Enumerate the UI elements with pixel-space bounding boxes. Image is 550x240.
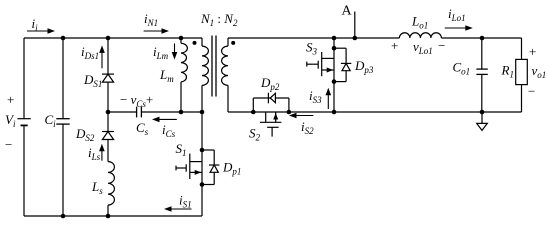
wire Cs left [108, 111, 137, 113]
wire Ci branch upper [62, 38, 64, 119]
svg-text:−: − [438, 38, 445, 53]
capacitor Ci [56, 119, 69, 124]
capacitor Co1 [476, 69, 487, 74]
svg-text:−: − [528, 84, 535, 99]
wire Ls bottom [107, 205, 109, 216]
mosfet S2 [260, 112, 281, 137]
junction primary-S1 node [200, 110, 205, 115]
node A tick [354, 12, 356, 39]
transformer dot secondary [231, 41, 235, 45]
current arrow i_N1 [144, 30, 164, 32]
wire right vertical top [521, 38, 523, 59]
svg-text:+: + [529, 44, 536, 59]
junction Co1-ground [480, 110, 485, 115]
wire DS branch mid [107, 82, 109, 131]
node A dot [353, 36, 358, 41]
wire Cs right [141, 111, 202, 113]
current arrow i_S1 [170, 208, 192, 210]
diode DS2 [102, 132, 114, 140]
current arrow i_Lo1 [445, 27, 468, 29]
wire Ci branch lower [62, 124, 64, 216]
transformer dot primary [193, 41, 197, 45]
junction Co1 top [480, 36, 485, 41]
wire bottom rail secondary [228, 111, 522, 113]
current arrow i_Ls [101, 149, 103, 160]
wire top rail primary [24, 37, 202, 39]
junction Lm bottom [179, 110, 184, 115]
mosfet S3 [307, 38, 334, 112]
diode Dp3 [334, 48, 351, 81]
junction S3 rail [332, 36, 337, 41]
junction Ci bottom [61, 214, 66, 219]
junction Lm top [179, 36, 184, 41]
svg-text:N1 : N2: N1 : N2 [200, 11, 238, 28]
current arrow i_S2 [295, 115, 314, 117]
transformer secondary winding [222, 46, 228, 85]
wire bottom rail primary [24, 215, 202, 217]
wire Co1 top [481, 38, 483, 69]
junction Ls bottom [106, 214, 111, 219]
current arrow i_Cs [158, 118, 177, 120]
junction Cs-DS node [106, 110, 111, 115]
junction Dp1 top [200, 148, 205, 153]
inductor Ls [108, 162, 114, 206]
transformer core [212, 36, 216, 97]
wire Co1 bottom [481, 74, 483, 112]
diode DS1 [102, 74, 114, 82]
wire DS branch low [107, 140, 109, 162]
wire DS branch top [107, 38, 109, 74]
junction Dp3 bottom [332, 79, 337, 84]
svg-text:+: + [7, 92, 14, 107]
inductor Lo1 [399, 33, 441, 38]
junction Dp3 top [332, 46, 337, 51]
wire Lm top [180, 38, 182, 43]
svg-text:+: + [391, 38, 398, 53]
mosfet S1 [176, 154, 202, 179]
inductor Lm [181, 43, 187, 82]
wire S1 branch [201, 112, 203, 216]
ground [477, 112, 488, 130]
wire left rail lower [23, 126, 25, 216]
junction Dp2 left [251, 110, 256, 115]
junction S3 bottom [332, 110, 337, 115]
capacitor Cs [137, 107, 142, 118]
wire top rail secondary [228, 37, 399, 39]
wire right vertical bottom [521, 85, 523, 112]
current arrow i_i [27, 30, 50, 32]
transformer primary winding [202, 38, 208, 112]
svg-text:A: A [342, 4, 353, 19]
junction Dp1 bottom [200, 182, 205, 187]
junction Dp2 right [287, 110, 292, 115]
current arrow i_Lm [174, 43, 176, 54]
current arrow i_S3 [327, 93, 329, 109]
diode Dp2 [253, 93, 289, 112]
diode Dp1 [202, 150, 219, 185]
battery Vi [17, 119, 30, 126]
junction Ci top [61, 36, 66, 41]
junction DS1 top [106, 36, 111, 41]
svg-text:−: − [5, 137, 12, 152]
wire secondary down [227, 38, 229, 46]
wire Lm bottom [180, 82, 182, 112]
resistor R1 [516, 59, 528, 84]
wire left rail upper [23, 38, 25, 119]
current arrow i_Ds1 [101, 51, 103, 68]
